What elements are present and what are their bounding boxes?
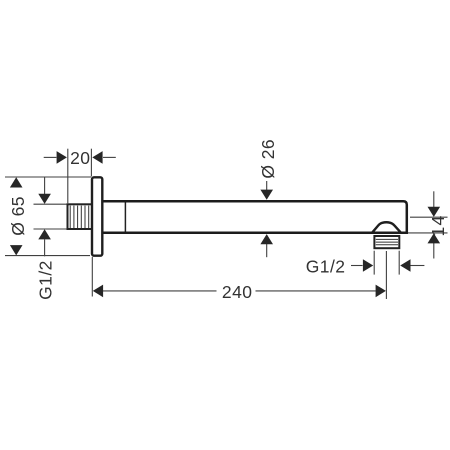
svg-text:20: 20 bbox=[70, 148, 90, 168]
svg-text:G1/2: G1/2 bbox=[306, 256, 346, 276]
svg-text:14: 14 bbox=[428, 215, 448, 237]
svg-text:240: 240 bbox=[222, 282, 253, 302]
svg-text:G1/2: G1/2 bbox=[36, 260, 56, 300]
svg-text:Ø 26: Ø 26 bbox=[258, 139, 278, 179]
svg-text:Ø 65: Ø 65 bbox=[8, 196, 28, 236]
